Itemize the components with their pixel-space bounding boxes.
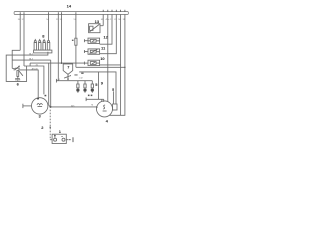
wire bus drop x=124.9 down to motor bottom (109, 15, 125, 116)
plus arrow (54, 135, 55, 138)
coil 5a (77, 81, 79, 93)
fuse 3 (43, 43, 46, 51)
wire frame top y=71.9 (79, 72, 116, 104)
box 13 (89, 24, 104, 33)
left lead (12, 67, 15, 69)
box 12 (84, 38, 99, 43)
switch arrowhead (67, 79, 69, 81)
wire y=68.0 to right (76, 66, 125, 68)
rheostat bar (15, 67, 20, 69)
resistor (17, 71, 19, 77)
resistor bottom stub (17, 76, 19, 81)
motor right rect leads (112, 91, 114, 104)
arrow tick at motor (96, 106, 98, 108)
wire x=50.7 down (50, 60, 52, 107)
left stub (50, 139, 52, 141)
svg-text:5: 5 (95, 82, 98, 87)
wire y=99.3 with T-bar (86, 98, 104, 100)
arrow diagonal (15, 66, 20, 70)
dashed arrowhead (49, 127, 51, 129)
svg-text:C: C (110, 19, 112, 21)
wire y=63.1 horizontal (30, 62, 84, 64)
dash contact (74, 74, 77, 77)
svg-text:51: 51 (22, 19, 25, 21)
terminal number labels under bus (18, 19, 126, 21)
wire x=120.6 continues to motor (120, 65, 122, 115)
wire y=55.1 right branch to fusebox (24, 52, 48, 55)
motor top stubs (102, 99, 104, 102)
svg-text:4: 4 (106, 118, 109, 123)
fuse 1 (34, 43, 37, 51)
wire corner x=30.1 (29, 63, 31, 66)
wire bus drop x=61.5 (61, 15, 63, 64)
wire x=48.7 to generator (48, 63, 50, 104)
wire bus drop x=20.2 (19, 15, 21, 51)
wire box11 right to bus (100, 15, 117, 54)
svg-text:10: 10 (100, 56, 105, 61)
svg-text:C2: C2 (114, 19, 118, 21)
svg-text:11: 11 (101, 46, 106, 51)
switch contacts (65, 74, 70, 79)
vertical x=98.5 (98, 72, 100, 99)
wire bus drop x=103.2 (102, 15, 104, 26)
wire left labels (29, 53, 39, 71)
regulator 6 (12, 66, 23, 81)
battery ground (66, 139, 68, 141)
wire bus drop x=58.3 (57, 15, 59, 81)
junction at generator right (50, 106, 52, 108)
wire bus drop x=48.5 to fuse 4 (48, 15, 50, 41)
wire box10 right to bus (100, 15, 121, 65)
fuse label blob (72, 40, 74, 41)
coil 5c (91, 81, 93, 93)
left terminal wire (23, 105, 32, 107)
svg-text:8: 8 (42, 33, 45, 38)
svg-text:M: M (91, 105, 93, 107)
box 11 (84, 49, 99, 54)
bus terminal ticks (20, 10, 125, 15)
inner symbol (37, 104, 43, 105)
fuse 4 (47, 43, 50, 51)
wire bus drop x=107.8 / frame left (107, 15, 109, 102)
junction dot (124, 67, 125, 68)
fuse 2 (39, 43, 42, 51)
wire junction to motor (51, 106, 96, 108)
bus bar 14 (14, 12, 128, 15)
svg-text:14: 14 (67, 3, 72, 8)
T-bar (22, 104, 24, 108)
pentagon housing (63, 64, 72, 74)
regulator arrowhead (18, 66, 20, 68)
wire branch y=60.1 to right (12, 59, 51, 61)
svg-text:7: 7 (67, 65, 70, 70)
coil 5b (84, 81, 86, 93)
wire bus drop x=24.0 (23, 15, 25, 66)
T-bar left end (55, 79, 57, 83)
wire y=80.7 lamps feed (56, 80, 92, 82)
svg-text:1: 1 (59, 129, 62, 134)
starter motor 4 (97, 101, 118, 117)
wire box12 right to bus (100, 15, 112, 45)
wire labels (71, 105, 94, 108)
wire y=55.1 left branch (6, 55, 26, 81)
wire turn left to x=12.2 (12, 50, 20, 68)
battery 1 (50, 134, 66, 143)
wire y=66.0 to generator top-right (24, 66, 44, 94)
inline fuse (75, 38, 77, 45)
regulator terminal blobs (14, 69, 21, 80)
generator lead labels (37, 95, 46, 100)
diagonal brace (19, 71, 23, 76)
right rect (113, 104, 117, 110)
svg-text:AT.LIB: AT.LIB (32, 67, 39, 70)
lead label blob (112, 88, 113, 91)
wire bus drop x=75.9 with fuse (75, 15, 77, 68)
svg-text:13: 13 (95, 19, 100, 24)
labels above T-bar (88, 95, 92, 97)
svg-text:9: 9 (101, 80, 104, 85)
ignition switch 7 (63, 64, 72, 79)
generator 3 (23, 98, 48, 114)
svg-text:2: 2 (41, 125, 44, 130)
box 10 (84, 60, 99, 65)
short bar (15, 78, 20, 80)
fuse box 8 (34, 15, 52, 53)
frame label blob (81, 73, 83, 74)
regulator right lead y=69.9 (20, 70, 38, 99)
svg-text:6: 6 (17, 82, 20, 87)
dashed cable to battery (49, 110, 51, 140)
inner symbol (103, 105, 105, 109)
junction dot (61, 62, 63, 64)
svg-text:1.32: 1.32 (79, 78, 84, 80)
